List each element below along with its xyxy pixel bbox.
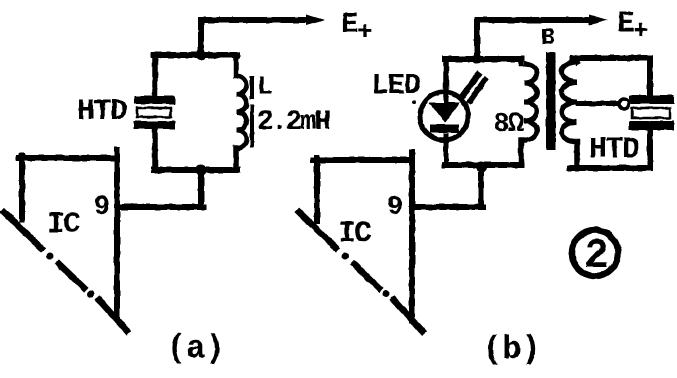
svg-text:+: + [633,16,649,46]
node junction top (b) [472,54,482,64]
svg-text:+: + [357,17,373,47]
wire junction to pin9 vertical (a) [198,170,204,207]
svg-text:8Ω: 8Ω [493,109,525,140]
LED wire inside top [444,95,449,105]
wire supply horizontal (a) [201,17,306,23]
transformer primary bottom stub [521,140,524,165]
svg-text:2.2mH: 2.2mH [257,107,329,138]
IC U1 (a) outline top [19,155,117,161]
IC U2 (b) outline top [313,157,412,163]
transducer HTD plate top (b) [629,95,674,104]
transducer HTD plate bottom (a) [134,121,175,129]
node junction bottom (a) [196,165,207,176]
IC U2 (b) break line dot1 [342,253,349,260]
wire HTD branch lower (a) [152,129,158,170]
inductor L core bar upper (a) [250,76,254,99]
svg-text:(a): (a) [167,330,225,367]
svg-text:E: E [617,7,634,40]
wire secondary loop top [573,55,650,61]
svg-text:IC: IC [47,208,81,242]
wire secondary loop right upper [647,58,653,96]
transformer secondary bottom stub [574,142,580,168]
svg-text:9: 9 [94,193,110,223]
wire supply horizontal (b) [477,17,588,23]
wire secondary loop right lower [647,130,653,168]
IC U1 (a) outline left [19,156,25,219]
transformer secondary coil [562,62,578,142]
transducer HTD body (a) [137,108,171,117]
wire loop top (a) [154,52,237,58]
svg-text:HTD: HTD [589,133,639,167]
IC U1 (a) break line dash1 [59,264,84,288]
wire L branch lower (a) [233,148,239,170]
wire secondary loop bottom [570,165,650,171]
transducer HTD plate bottom (b) [629,121,674,130]
inductor L core bar lower (a) [250,104,254,148]
wire junction to pin9 vertical (b) [478,167,484,207]
IC U2 (b) break line solid [299,212,336,248]
wire tap horizontal [578,101,617,106]
wire HTD branch upper (a) [152,55,158,96]
svg-text:L: L [257,73,273,103]
IC U2 (b) outline left [314,158,320,221]
svg-text:HTD: HTD [77,95,127,129]
LED circle [420,92,468,140]
transformer primary top stub [518,59,524,64]
IC U1 (a) break line dot2 [88,291,95,298]
transformer primary coil 8ohm [524,64,537,140]
IC U1 (a) break line dot1 [47,253,54,260]
transducer HTD plate top (a) [134,96,175,104]
transformer secondary top stub [575,58,577,62]
wire loop bottom (b) [445,162,521,168]
inductor L coil (a) [237,76,247,148]
LED light arrow 2 [470,80,485,101]
arrowhead E+ (a) [306,15,325,26]
wire loop bottom (a) [154,167,237,173]
wire L branch upper (a) [233,55,239,76]
wire LED branch upper (b) [443,59,449,95]
svg-text:B: B [541,25,555,51]
IC U2 (b) outline right [409,152,415,320]
transducer HTD body (b) [632,108,670,118]
wire loop top (b) [445,56,521,62]
IC U2 (b) break line dot2 [383,291,390,298]
node junction top (a) [196,50,206,60]
transformer core B [546,52,556,150]
speck near LED label [412,100,416,104]
LED light arrow 1 [463,75,478,95]
node tap terminal circle [619,99,629,109]
IC U1 (a) break line dash2 [99,300,127,331]
arrowhead E+ (b) [589,15,608,26]
figure number 2 circled [572,230,618,276]
IC U2 (b) break line dash2 [394,300,422,331]
wire pin9 horizontal (a) [117,204,204,210]
IC U1 (a) break line solid [4,212,41,248]
svg-text:LED: LED [371,69,421,102]
IC U2 (b) break line dash1 [354,264,379,288]
svg-text:9: 9 [387,193,403,223]
svg-text:IC: IC [338,217,372,251]
LED cathode bar [430,125,459,133]
wire supply vertical (a) [198,20,204,55]
wire supply vertical (b) [474,20,480,58]
LED triangle [429,103,460,124]
node junction bottom (b) [476,162,487,173]
svg-text:E: E [341,8,358,41]
svg-text:(b): (b) [483,331,541,368]
svg-text:2: 2 [584,232,609,280]
LED wire inside bottom [444,133,449,165]
wire pin9 horizontal (b) [412,204,483,210]
IC U1 (a) outline right [114,150,120,318]
